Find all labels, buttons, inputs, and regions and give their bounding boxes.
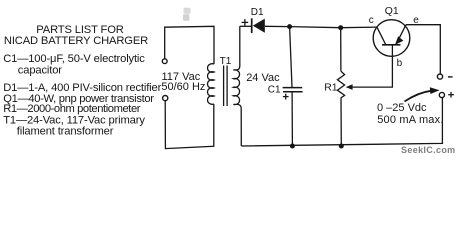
svg-text:NICAD BATTERY CHARGER: NICAD BATTERY CHARGER (4, 35, 148, 47)
transformer T1 secondary winding + wire up to diode node (233, 26, 241, 146)
transistor Q1 emitter internal lead with pnp arrow (397, 25, 407, 44)
svg-text:C1—100-μF, 50-V electrolytic: C1—100-μF, 50-V electrolytic (3, 53, 145, 65)
svg-text:e: e (413, 15, 419, 26)
wire: ac plug lower terminal to transformer primary bottom (165, 101, 214, 149)
plus sign at rectifier (242, 19, 249, 26)
junction node bottom rail / R1 (339, 144, 344, 149)
svg-text:T1—24-Vac, 117-Vac primary: T1—24-Vac, 117-Vac primary (3, 114, 145, 126)
svg-text:PARTS LIST FOR: PARTS LIST FOR (36, 24, 123, 36)
svg-text:R1—2000-ohm potentiometer: R1—2000-ohm potentiometer (3, 103, 141, 115)
diode D1 cathode bar (251, 18, 253, 33)
output plus terminal (439, 92, 444, 97)
wire: Q1 emitter to output minus terminal (406, 25, 440, 74)
transistor Q1 base bar (382, 44, 401, 46)
svg-text:Q1: Q1 (385, 6, 399, 17)
junction node bottom rail / C1 (290, 144, 295, 149)
svg-text:c: c (369, 15, 374, 26)
minus label (448, 76, 453, 78)
transformer T1 core (223, 66, 225, 107)
capacitor C1 plates (283, 88, 303, 92)
ac plug upper terminal (162, 59, 167, 64)
svg-text:R1: R1 (324, 82, 338, 93)
wire: ac plug upper terminal to transformer primary top (165, 26, 214, 64)
svg-text:0 –25 Vdc: 0 –25 Vdc (377, 102, 427, 114)
transistor Q1 body circle (373, 20, 410, 57)
wire: wiper of R1 to Q1 base (349, 45, 392, 87)
ac plug lower terminal (163, 96, 168, 101)
wire: capacitor C1 to bottom rail (291, 92, 293, 146)
svg-text:T1: T1 (220, 56, 232, 67)
svg-text:SeekIC.com: SeekIC.com (401, 145, 456, 155)
svg-text:24 Vac: 24 Vac (246, 72, 280, 84)
svg-text:C1: C1 (268, 85, 281, 96)
junction node top rail / C1 (287, 24, 292, 29)
transformer T1 primary winding (208, 64, 214, 105)
plus label at output (448, 92, 454, 98)
svg-text:D1: D1 (251, 7, 264, 18)
wire: top rail diode to Q1 collector (265, 26, 377, 27)
wire: top rail from secondary to diode anode bar (240, 25, 252, 27)
svg-text:b: b (397, 58, 403, 69)
output minus terminal (437, 74, 442, 79)
wire: R1 branch from top rail node down to potentiometer (340, 28, 342, 71)
transistor Q1 collector internal lead (377, 27, 386, 45)
svg-text:500 mA max.: 500 mA max. (377, 114, 443, 126)
wire: R1 bottom to bottom rail (340, 98, 342, 146)
scan smudge artifact (184, 8, 191, 14)
curved arrow pointing to plus output terminal (405, 91, 432, 102)
svg-text:50/60 Hz: 50/60 Hz (161, 81, 205, 93)
svg-text:capacitor: capacitor (18, 65, 62, 77)
wire: C1 branch from top rail node down to capacitor (290, 27, 292, 88)
junction node top rail / R1 (338, 25, 343, 30)
plus sign at C1 (283, 94, 289, 100)
potentiometer R1 resistive element (zigzag) (337, 71, 344, 98)
bottom rail (241, 98, 442, 146)
svg-text:filament transformer: filament transformer (17, 126, 114, 138)
potentiometer R1 wiper arrow (346, 84, 353, 90)
diode D1 triangle (253, 19, 265, 33)
